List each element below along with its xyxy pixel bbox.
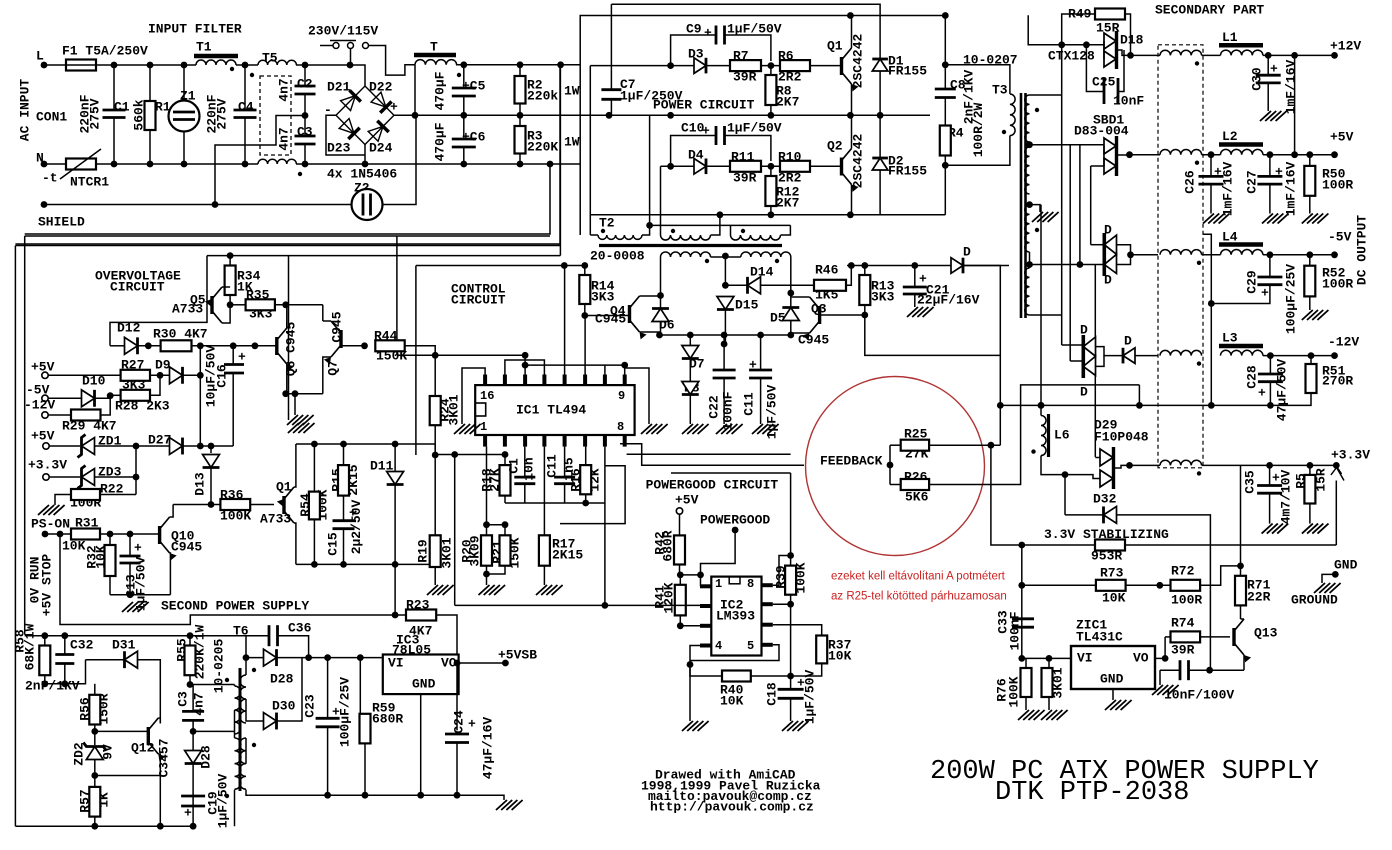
wire — [230, 304, 246, 306]
capacitor C8 — [935, 89, 956, 98]
junction — [502, 521, 509, 528]
svg-text:Q2: Q2 — [827, 139, 843, 154]
wire ladder L6 feed — [1040, 205, 1042, 416]
junction — [1058, 41, 1065, 48]
wire — [1269, 493, 1271, 523]
svg-text:NTCR1: NTCR1 — [70, 175, 109, 190]
junction — [847, 112, 854, 119]
ground ZIC1 — [1105, 700, 1132, 710]
wire — [564, 447, 566, 478]
svg-text:FR155: FR155 — [888, 64, 927, 79]
wire — [232, 373, 234, 446]
regulator IC3 78L05 box — [383, 655, 459, 695]
inductor L5 w1 — [1160, 50, 1202, 55]
wire — [1025, 658, 1027, 668]
resistor R14 — [579, 275, 590, 304]
wire — [135, 446, 137, 495]
junction — [942, 61, 949, 68]
op-amp IC1 TL494 box — [475, 385, 634, 435]
svg-text:2µ2/50V: 2µ2/50V — [349, 499, 364, 554]
wire — [1135, 355, 1158, 357]
wire Q4 emitter — [640, 332, 660, 335]
wire to feedback — [963, 266, 1000, 446]
junction — [697, 572, 704, 579]
svg-text:C945: C945 — [798, 333, 829, 348]
diode D4 — [694, 159, 706, 175]
capacitor C33 — [1012, 619, 1034, 627]
ground T3 tap — [1032, 212, 1059, 222]
svg-text:F10P048: F10P048 — [1094, 430, 1149, 445]
wire — [1294, 55, 1296, 154]
junction — [721, 332, 728, 339]
resistor R51 — [1306, 364, 1317, 393]
wire — [232, 346, 234, 365]
wire — [396, 236, 398, 355]
capacitor C6 — [452, 139, 476, 147]
wire — [234, 790, 236, 827]
wire — [810, 65, 842, 67]
IC2 pins — [700, 585, 773, 645]
wire — [1041, 456, 1065, 475]
wire — [463, 115, 465, 139]
junction — [1018, 655, 1025, 662]
wire — [395, 614, 406, 616]
wire — [1241, 618, 1245, 620]
wire — [190, 685, 193, 691]
core L1 — [1219, 43, 1263, 48]
junction — [911, 262, 918, 269]
wire — [1269, 465, 1271, 485]
svg-text:L6: L6 — [1054, 428, 1070, 443]
svg-text:+12V: +12V — [1330, 39, 1361, 54]
resistor R55 — [185, 646, 196, 676]
wire shield rail — [44, 204, 352, 206]
resistor R76 — [1021, 668, 1032, 697]
wire — [1118, 50, 1124, 92]
junction — [687, 661, 694, 668]
diode D10 — [82, 390, 95, 407]
wire — [1030, 94, 1062, 96]
wire N rail — [96, 163, 258, 165]
wire aux minus rail — [661, 334, 791, 336]
resistor R59 — [360, 714, 371, 744]
wire — [322, 305, 324, 321]
wire — [1029, 252, 1031, 268]
junction — [61, 680, 68, 687]
resistor R57 — [89, 787, 100, 817]
wire Q12 base — [95, 730, 149, 732]
resistor R52 — [1304, 266, 1315, 297]
wire — [1210, 155, 1212, 177]
wire — [610, 99, 612, 115]
svg-text:+C5: +C5 — [462, 79, 486, 94]
svg-text:-12V: -12V — [1328, 335, 1359, 350]
capacitor C21 — [903, 287, 927, 294]
junction — [848, 262, 855, 269]
junction — [1206, 667, 1213, 674]
phase dot T6b — [225, 794, 229, 798]
wire — [158, 718, 160, 723]
wire — [110, 594, 170, 596]
wire feedback net — [620, 444, 804, 465]
capacitor C2 — [295, 86, 316, 94]
svg-text:L: L — [36, 49, 44, 64]
svg-text:1W: 1W — [564, 84, 580, 99]
junction — [581, 262, 588, 269]
wire — [343, 496, 345, 521]
svg-text:47µF/16V: 47µF/16V — [481, 717, 496, 780]
junction — [1162, 655, 1169, 662]
ground aux — [288, 423, 315, 433]
wire — [245, 738, 247, 764]
svg-text:D: D — [963, 245, 971, 260]
svg-text:2SC4242: 2SC4242 — [851, 133, 866, 188]
svg-text:2K7: 2K7 — [776, 196, 799, 211]
capacitor C29 — [1257, 277, 1282, 285]
wire — [1309, 504, 1311, 524]
junction — [768, 112, 775, 119]
wire — [1131, 254, 1159, 256]
svg-text:L1: L1 — [1222, 30, 1238, 45]
phase dot T3s3 — [1035, 228, 1039, 232]
wire — [343, 529, 345, 565]
wire — [559, 65, 561, 256]
wire Y-cap to shield — [215, 116, 305, 205]
wire — [660, 296, 662, 309]
wire — [725, 256, 740, 258]
wire — [1309, 465, 1311, 475]
wire — [48, 397, 81, 399]
wire — [689, 395, 691, 425]
junction — [1026, 141, 1033, 148]
junction — [787, 601, 794, 608]
junction — [147, 62, 154, 69]
wire — [463, 147, 465, 164]
capacitor C4 — [234, 110, 257, 118]
ground C26 — [1203, 214, 1230, 224]
svg-text:D28: D28 — [199, 745, 214, 769]
svg-text:4x 1N5406: 4x 1N5406 — [327, 167, 397, 182]
junction — [340, 561, 347, 568]
resistor R19 — [430, 535, 441, 567]
ground R17 — [536, 585, 563, 595]
wire — [64, 636, 66, 655]
svg-text:1µF/50V: 1µF/50V — [727, 121, 782, 136]
resistor R34 — [225, 266, 236, 296]
wire — [95, 396, 111, 399]
junction — [847, 211, 854, 218]
junction — [282, 301, 289, 308]
svg-text:+3.3V: +3.3V — [1331, 448, 1370, 463]
wire — [1165, 636, 1170, 638]
junction — [861, 262, 868, 269]
inductor L4 — [1221, 250, 1263, 255]
capacitor C22 — [713, 370, 736, 378]
svg-text:SHIELD: SHIELD — [38, 215, 85, 230]
wire — [725, 35, 771, 61]
wire aux rail — [847, 265, 1009, 267]
wire — [278, 636, 309, 658]
inductor T6 s2 — [240, 738, 246, 789]
wire aux gnd rail — [248, 795, 504, 800]
inductor L5 w5 — [1160, 460, 1202, 465]
wire — [1270, 393, 1311, 405]
resistor R35 — [246, 299, 275, 310]
wire — [95, 775, 161, 777]
junction — [243, 654, 250, 661]
wire — [101, 396, 111, 415]
junction — [787, 290, 794, 297]
wire Z2 to plus — [383, 115, 417, 204]
capacitor C11 — [749, 370, 772, 378]
svg-text:D: D — [1080, 385, 1088, 400]
wire — [650, 224, 791, 226]
wire — [1065, 475, 1100, 479]
wire — [1267, 83, 1269, 111]
svg-text:100R: 100R — [1171, 593, 1202, 608]
core L6 — [1047, 414, 1050, 457]
wire — [1096, 347, 1124, 356]
wire — [229, 256, 231, 266]
wire — [1062, 14, 1095, 45]
svg-text:T2: T2 — [599, 216, 615, 231]
wire — [1269, 382, 1271, 406]
wire — [459, 662, 506, 664]
wire — [414, 65, 416, 116]
junction — [1208, 402, 1215, 409]
wire — [189, 636, 191, 646]
wire — [192, 720, 194, 826]
ground C18 — [782, 721, 809, 731]
junction — [1083, 41, 1090, 48]
wire — [706, 65, 730, 67]
wire — [504, 496, 506, 503]
wire — [183, 374, 201, 376]
wire vreg column — [1021, 545, 1023, 658]
junction — [1127, 52, 1134, 59]
resistor R17 — [539, 535, 550, 565]
diode D1 — [872, 59, 888, 71]
wire — [929, 385, 1040, 485]
resistor R24 — [430, 396, 441, 425]
node +3.3V — [1333, 462, 1340, 469]
wire — [642, 115, 650, 235]
diode D28 b — [185, 751, 202, 764]
svg-text:D24: D24 — [369, 141, 393, 156]
svg-text:R74: R74 — [1171, 616, 1195, 631]
wire — [519, 104, 521, 127]
svg-text:2K7: 2K7 — [776, 95, 799, 110]
ground R20 — [479, 585, 506, 595]
capacitor C1 — [103, 110, 126, 118]
svg-text:VO: VO — [1133, 651, 1149, 666]
svg-text:R72: R72 — [1171, 564, 1195, 579]
svg-text:DTK PTP-2038: DTK PTP-2038 — [995, 778, 1189, 808]
wire Q1 collector — [851, 16, 853, 49]
svg-text:C22: C22 — [707, 395, 722, 419]
wire — [584, 316, 586, 375]
svg-text:+5V: +5V — [31, 429, 55, 444]
svg-text:C11: C11 — [545, 454, 560, 478]
wire — [94, 817, 96, 827]
wire — [1065, 514, 1104, 516]
wire pin5 loop — [690, 645, 779, 661]
junction — [1266, 462, 1273, 469]
wire — [210, 468, 212, 505]
selector bar — [330, 40, 356, 42]
junction — [522, 352, 529, 359]
junction — [757, 332, 764, 339]
junction — [847, 12, 854, 19]
wire — [1310, 356, 1312, 364]
svg-text:INPUT FILTER: INPUT FILTER — [148, 22, 242, 37]
inductor T6 p2 — [235, 738, 241, 789]
wire — [730, 225, 732, 235]
junction — [460, 161, 467, 168]
svg-text:PS-ON: PS-ON — [31, 517, 70, 532]
resistor R49 — [1095, 9, 1125, 20]
terminal +5V pg — [676, 508, 682, 514]
junction — [208, 443, 215, 450]
wire — [304, 144, 306, 164]
core T3 a — [1020, 93, 1023, 318]
svg-text:5: 5 — [747, 639, 754, 653]
resistor R44 — [375, 340, 404, 351]
wire to IC2 pin2 — [455, 604, 700, 606]
node bridge top — [347, 62, 354, 69]
wire — [343, 444, 345, 465]
svg-text:-5V: -5V — [1328, 230, 1352, 245]
junction — [1267, 402, 1274, 409]
wire sense — [1000, 404, 1270, 406]
wire — [150, 374, 170, 376]
wire — [889, 445, 891, 484]
wire — [277, 658, 303, 721]
svg-text:+3.3V: +3.3V — [28, 458, 67, 473]
inductor T3 s2 — [1025, 147, 1030, 194]
node T2 center tap — [722, 253, 729, 260]
wire — [327, 727, 329, 795]
wire — [1164, 637, 1166, 659]
svg-text:T1: T1 — [196, 40, 212, 55]
svg-text:+: + — [184, 806, 192, 821]
bridge rectifier D21 D22 D23 D24 outline — [336, 86, 394, 145]
wire aux chain — [207, 255, 560, 257]
junction — [208, 501, 215, 508]
varistor Z1 — [169, 101, 200, 132]
wire — [1309, 196, 1311, 214]
diode D7 — [682, 346, 699, 359]
wire — [725, 136, 771, 162]
inductor T2 s1 — [661, 252, 711, 257]
junction — [41, 680, 48, 687]
wire — [138, 660, 161, 724]
junction — [687, 332, 694, 339]
terminal -5V — [42, 395, 48, 401]
junction — [460, 112, 467, 119]
wire Q6 emitter — [286, 364, 288, 394]
svg-text:220k: 220k — [527, 89, 558, 104]
svg-text:100K: 100K — [1007, 676, 1022, 707]
wire PS-ON to R23 — [60, 534, 395, 625]
junction — [227, 252, 234, 259]
phase dot T2p1 — [601, 229, 605, 233]
wire — [45, 533, 71, 535]
zener ZD2 — [83, 743, 106, 760]
wire — [680, 574, 700, 576]
ground C22 — [716, 424, 743, 434]
junction — [127, 591, 134, 598]
inductor T3 s4 — [1025, 268, 1030, 315]
core L4 — [1219, 242, 1263, 247]
ground C30 — [1260, 111, 1287, 121]
wire — [1160, 669, 1180, 671]
wire N rail — [296, 163, 368, 165]
capacitor C10 — [716, 126, 725, 145]
resistor 953R — [1095, 540, 1125, 551]
svg-text:680R: 680R — [372, 712, 403, 727]
resistor R58 — [39, 646, 50, 676]
capacitor Z2 — [352, 189, 383, 220]
wire — [456, 743, 458, 796]
resistor R18 — [500, 465, 511, 496]
wire aux top — [296, 443, 435, 445]
wire — [25, 635, 269, 637]
ground R5 — [1302, 524, 1329, 534]
wire — [879, 170, 881, 215]
diode D28 — [264, 649, 277, 666]
junction — [41, 632, 48, 639]
svg-text:10K: 10K — [720, 694, 744, 709]
diode D9 — [170, 367, 183, 384]
junction — [667, 112, 674, 119]
svg-text:C27: C27 — [1245, 170, 1260, 193]
resistor R25 — [901, 440, 929, 451]
junction — [1306, 151, 1313, 158]
svg-text:1mF/16V: 1mF/16V — [1284, 161, 1299, 216]
svg-text:8: 8 — [747, 577, 754, 591]
svg-text:C35: C35 — [1243, 470, 1258, 494]
junction — [107, 392, 114, 399]
junction — [787, 332, 794, 339]
comparator IC2 LM393 box — [711, 577, 761, 656]
resistor R73 — [1096, 580, 1126, 591]
diode D11 — [387, 472, 404, 485]
diode D minus12 pair — [1083, 335, 1095, 378]
wire — [1159, 670, 1161, 685]
junction — [517, 112, 524, 119]
wire — [604, 503, 606, 605]
junction — [522, 362, 529, 369]
wire — [689, 335, 691, 346]
wire — [1022, 584, 1096, 586]
core T2 — [599, 244, 782, 247]
wire — [690, 665, 722, 677]
junction — [91, 772, 98, 779]
wire — [504, 525, 506, 536]
wire — [524, 355, 526, 374]
ground C13 — [122, 602, 149, 612]
junction — [1291, 52, 1298, 59]
wire — [49, 476, 80, 478]
transistor Q10 — [160, 517, 177, 560]
junction — [311, 561, 318, 568]
node +5V — [1331, 151, 1338, 158]
junction — [942, 162, 949, 169]
wire — [1117, 154, 1130, 156]
resistor R30 — [161, 340, 192, 351]
junction — [305, 654, 312, 661]
